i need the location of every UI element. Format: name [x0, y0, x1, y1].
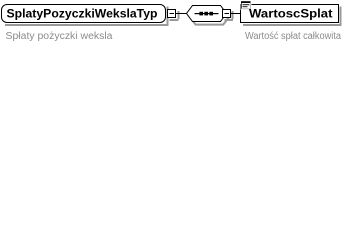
- expand box (minus) on sequence shadow: [225, 11, 234, 21]
- wire from sequence to element: [231, 13, 241, 14]
- complexType box SplatyPozyczkiWekslaTyp shadow: [5, 7, 169, 27]
- svg-text:Spłaty pożyczki weksla: Spłaty pożyczki weksla: [6, 31, 114, 42]
- sequence glyph dot 3: [209, 12, 213, 16]
- wire from expand box to sequence: [176, 13, 188, 14]
- element box WartoscSplat shadow: [243, 7, 342, 27]
- element box WartoscSplat: [241, 5, 339, 23]
- svg-text:SplatyPozyczkiWekslaTyp: SplatyPozyczkiWekslaTyp: [7, 8, 158, 20]
- sequence compositor octagon shadow: [190, 16, 230, 24]
- minus sign 2: [225, 13, 230, 14]
- expand box (minus) on complexType: [168, 10, 176, 18]
- minus sign 1: [170, 13, 175, 14]
- expand box (minus) on complexType shadow: [170, 11, 180, 21]
- sequence glyph line: [195, 13, 219, 14]
- expand box (minus) on sequence: [223, 10, 231, 18]
- sequence glyph dot 2: [204, 12, 208, 16]
- sequence compositor octagon: [187, 6, 227, 22]
- sequence glyph dot 1: [199, 12, 203, 16]
- svg-text:WartoscSplat: WartoscSplat: [249, 8, 333, 20]
- complexType box SplatyPozyczkiWekslaTyp: [2, 5, 166, 23]
- svg-text:Wartość spłat całkowita: Wartość spłat całkowita: [245, 31, 342, 42]
- text-content icon: [241, 1, 252, 11]
